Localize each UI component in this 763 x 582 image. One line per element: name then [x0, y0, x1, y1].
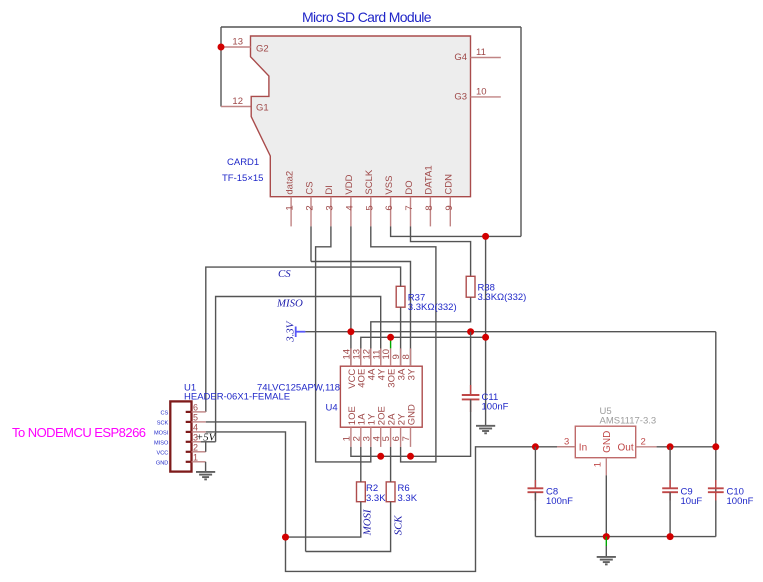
svg-text:CS: CS: [161, 410, 169, 416]
card pin 2 stub: [304, 181, 315, 226]
wire right rail vertical: [715, 332, 717, 537]
wire U1 pin1 GND stem: [205, 462, 207, 472]
resistor R38: [466, 276, 526, 303]
wire CS header line to R37 top: [206, 267, 401, 412]
op-amp buffer U4 74LVC125APW body: [340, 366, 422, 427]
capacitor C8: [528, 447, 574, 537]
svg-text:5: 5: [364, 205, 375, 210]
junction node +5V C8: [532, 443, 539, 450]
svg-text:7: 7: [401, 436, 412, 441]
wire CS route card to U4 3Y: [311, 262, 411, 367]
svg-text:To NODEMCU ESP8266: To NODEMCU ESP8266: [12, 425, 146, 440]
connector U1 HEADER-06X1-FEMALE body: [170, 401, 191, 471]
svg-text:1: 1: [285, 205, 296, 210]
wire U4 1A to R2 top: [360, 447, 362, 482]
wire top loop horizontal: [221, 26, 521, 28]
svg-text:2: 2: [641, 436, 646, 447]
wire C11 bottom to U4 gnd bus: [351, 399, 471, 456]
wire card pin4 VDD down to U4 VCC: [350, 226, 352, 366]
svg-text:7: 7: [404, 205, 415, 210]
U4 pin 11 4Y: [371, 348, 387, 380]
wire left vertical pins 13-12: [220, 27, 222, 107]
card pin 3 stub: [324, 185, 335, 226]
U4 pin 14 VCC: [342, 348, 358, 388]
svg-text:100nF: 100nF: [546, 496, 573, 507]
U1 pin 2: [156, 442, 205, 456]
U4 pin 1 1OE: [342, 406, 358, 447]
wire U1 pin3 MISO elbow: [201, 441, 216, 443]
svg-text:CS: CS: [278, 268, 291, 280]
U4 pin 12 4A: [361, 348, 377, 380]
U4 pin 10 3OE: [381, 348, 397, 387]
card CARD1 outline: [251, 36, 471, 197]
svg-text:SCK: SCK: [157, 420, 169, 426]
resistor R6: [386, 482, 418, 504]
svg-text:MISO: MISO: [276, 298, 303, 310]
svg-text:11: 11: [476, 47, 486, 58]
svg-text:DI: DI: [324, 185, 335, 195]
wire bottom gnd bus: [535, 536, 715, 538]
wire U1 pin5 SCK route: [206, 422, 306, 552]
wire R37 bottom to U4 3A: [400, 307, 402, 366]
capacitor C10: [708, 480, 754, 507]
U4 pin 7 GND: [401, 404, 417, 447]
wire MISO line header to U4 4Y: [216, 297, 381, 442]
svg-text:TF-15×15: TF-15×15: [222, 173, 263, 184]
card pin 13 lead: [221, 37, 251, 48]
svg-text:VDD: VDD: [344, 174, 355, 194]
svg-text:4: 4: [345, 205, 356, 210]
svg-text:1: 1: [193, 452, 198, 462]
U1 pin 5: [157, 412, 206, 426]
junction node gnd bus C9: [667, 533, 674, 540]
wire card pin2 CS down: [310, 226, 312, 261]
svg-text:VCC: VCC: [156, 450, 168, 456]
junction node GND7-bus: [407, 453, 414, 460]
svg-text:MOSI: MOSI: [154, 430, 169, 436]
resistor R37: [396, 286, 456, 313]
svg-text:3.3KΩ(332): 3.3KΩ(332): [478, 292, 527, 303]
svg-text:U4: U4: [326, 403, 338, 414]
junction node rail-C11: [467, 328, 474, 335]
svg-text:GND: GND: [602, 431, 613, 453]
svg-text:GND: GND: [406, 404, 417, 425]
ground symbol U5: [597, 557, 616, 565]
svg-text:3.3K: 3.3K: [366, 493, 386, 504]
svg-text:13: 13: [232, 37, 243, 48]
U4 pin 8 3Y: [401, 348, 417, 380]
wire GND rail2 4OE 3OE: [361, 337, 486, 366]
wire green 3OE stub: [390, 337, 392, 348]
svg-text:VSS: VSS: [384, 176, 395, 195]
svg-text:G4: G4: [454, 52, 467, 63]
junction node out-C9: [667, 443, 674, 450]
card pin 8 stub: [424, 165, 435, 226]
junction node VDD-rail: [347, 328, 354, 335]
U5 pin 1 GND: [592, 431, 613, 476]
svg-text:HEADER-06X1-FEMALE: HEADER-06X1-FEMALE: [184, 392, 290, 403]
wire U1 pin4 MOSI +5V route: [206, 432, 576, 572]
card pin 5 stub: [364, 169, 375, 226]
svg-text:G1: G1: [256, 103, 269, 114]
U1 pin 1: [156, 452, 206, 466]
U5 pin 3 In: [557, 436, 587, 453]
svg-text:In: In: [579, 442, 587, 453]
ground symbol VSS: [476, 426, 495, 434]
wire R38 bottom to U4 4A: [371, 297, 471, 366]
svg-text:AMS1117-3.3: AMS1117-3.3: [600, 416, 657, 427]
svg-text:GND: GND: [156, 460, 168, 466]
wire top loop right vertical: [520, 27, 522, 236]
ground symbol U1: [196, 472, 215, 480]
svg-text:3: 3: [564, 436, 569, 447]
svg-text:9: 9: [444, 205, 455, 210]
wire R6 bottom to SCK branch: [306, 502, 391, 552]
svg-text:Micro SD Card Module: Micro SD Card Module: [302, 9, 432, 25]
junction node 2OE-bus: [377, 453, 384, 460]
svg-text:DO: DO: [404, 180, 415, 194]
wire card pin7 DO to R38: [411, 226, 471, 276]
svg-text:SCK: SCK: [393, 515, 405, 536]
junction node VSS branch: [482, 233, 489, 240]
svg-text:100nF: 100nF: [727, 496, 754, 507]
svg-text:2: 2: [305, 205, 316, 210]
card pin 10 lead: [471, 86, 501, 97]
resistor R2: [357, 482, 387, 504]
card pin 7 stub: [404, 180, 415, 226]
svg-text:8: 8: [424, 205, 435, 210]
svg-text:6: 6: [384, 205, 395, 210]
wire U5 gnd down: [605, 475, 607, 536]
U4 pin 6 2Y: [391, 413, 407, 447]
svg-text:CARD1: CARD1: [227, 157, 259, 168]
svg-text:CS: CS: [304, 181, 315, 194]
junction node out-rail: [712, 443, 719, 450]
svg-text:CDN: CDN: [444, 174, 455, 195]
card pin 9 stub: [444, 174, 455, 227]
junction node rail2-VSS: [482, 334, 489, 341]
svg-text:Out: Out: [618, 442, 634, 453]
svg-text:8: 8: [401, 354, 412, 359]
U1 pin 3: [154, 432, 201, 446]
svg-text:10: 10: [476, 86, 487, 97]
svg-text:1: 1: [592, 462, 603, 467]
svg-text:3.3KΩ(332): 3.3KΩ(332): [408, 302, 457, 313]
U4 pin 5 2A: [381, 413, 397, 447]
U5 pin 2 Out: [618, 436, 657, 453]
wire card pin6 VSS to loop: [391, 226, 521, 236]
wire U4 2A to R6 top: [390, 447, 392, 482]
svg-text:G2: G2: [256, 44, 269, 55]
svg-text:10uF: 10uF: [681, 496, 703, 507]
svg-text:3: 3: [325, 205, 336, 210]
card pin 1 stub: [284, 171, 295, 227]
svg-text:data2: data2: [284, 171, 295, 195]
regulator U5 AMS1117-3.3 body: [575, 426, 635, 458]
card pin 11 lead: [471, 47, 501, 58]
svg-text:DATA1: DATA1: [424, 165, 435, 194]
U4 pin 3 1Y: [361, 413, 377, 447]
wire gnd stem: [605, 546, 607, 557]
card pin 12 lead: [221, 96, 251, 107]
wire U5 out to right rail: [657, 446, 716, 448]
wire pin3 to pin2 link: [205, 442, 207, 452]
U1 pin 6: [161, 402, 206, 416]
svg-text:+5V: +5V: [196, 432, 217, 444]
power symbol 3.3V: [285, 320, 306, 342]
junction node pin13 / G-loop: [218, 44, 225, 51]
wire VSS GND vertical: [485, 236, 487, 425]
svg-text:MOSI: MOSI: [362, 508, 374, 536]
wire card pin5 SCLK route: [371, 226, 436, 462]
svg-text:6: 6: [193, 402, 198, 412]
wire R2 bottom to MOSI branch: [286, 502, 361, 537]
svg-text:3Y: 3Y: [406, 368, 417, 380]
svg-text:G3: G3: [454, 91, 467, 102]
U4 pin 13 4OE: [351, 348, 367, 387]
svg-text:3.3K: 3.3K: [398, 493, 418, 504]
card pin 6 stub: [384, 176, 395, 227]
svg-text:100nF: 100nF: [482, 402, 509, 413]
svg-text:5: 5: [193, 412, 198, 422]
junction node MOSI-R2 branch: [282, 534, 289, 541]
capacitor C11: [462, 332, 509, 413]
svg-text:2: 2: [193, 442, 198, 452]
svg-text:12: 12: [232, 96, 243, 107]
U4 pin 2 1A: [351, 413, 367, 447]
svg-text:SCLK: SCLK: [364, 169, 375, 194]
U1 pin 4: [154, 422, 206, 436]
U4 pin 4 2OE: [371, 406, 387, 447]
wire card pin3 DI down: [316, 226, 371, 462]
svg-text:MISO: MISO: [154, 440, 169, 446]
junction node gnd bus U5: [603, 533, 610, 540]
wire 3.3V rail: [305, 331, 715, 333]
junction node 3OE-rail2: [387, 334, 394, 341]
svg-text:3.3V: 3.3V: [285, 320, 297, 342]
card pin 4 stub: [344, 174, 355, 226]
U4 pin 9 3A: [391, 348, 407, 380]
wire green gnd stub: [605, 537, 607, 546]
capacitor C9: [662, 447, 702, 537]
